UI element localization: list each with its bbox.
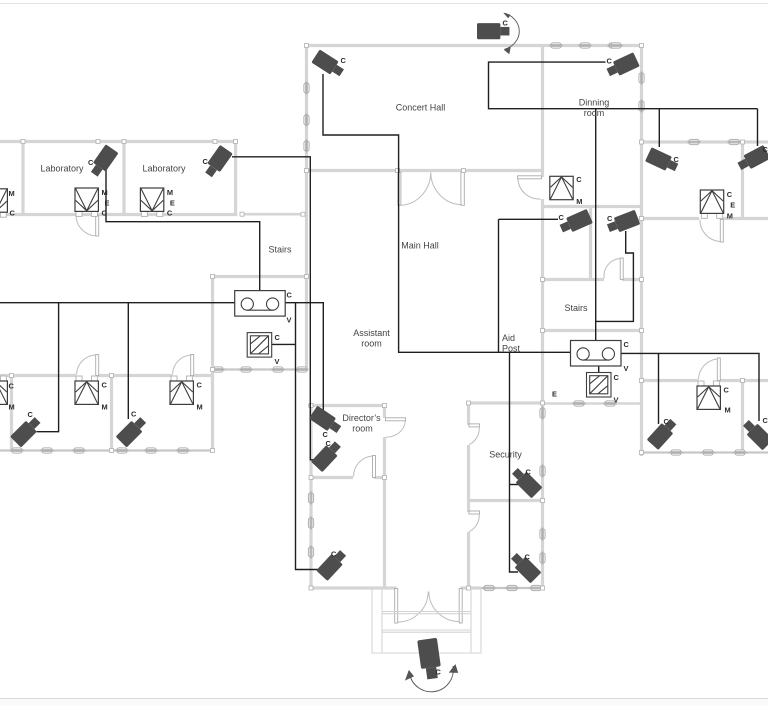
window south [506, 585, 519, 590]
svg-text:V: V [624, 364, 629, 373]
svg-text:M: M [9, 403, 15, 412]
door concert arcs [399, 172, 462, 205]
svg-text:C: C [331, 550, 337, 559]
wall security left v1 [467, 403, 470, 425]
door dinning arc [518, 179, 541, 199]
wall stairs1 bottom [211, 368, 306, 370]
detector box SW1 C/M [75, 376, 108, 412]
camera stairs-A [558, 209, 593, 236]
window SW-wing bottom [116, 448, 129, 453]
svg-text:M: M [576, 197, 582, 206]
page top rule [0, 3, 768, 5]
door director2 leaf [373, 456, 376, 478]
wall SE-wing top right part [719, 379, 768, 382]
wall NE-wing divider [741, 141, 744, 221]
wall SE-wing divider [741, 379, 744, 454]
svg-text:C: C [323, 430, 329, 439]
window main top east [579, 43, 592, 48]
window security east [540, 407, 545, 420]
window concert west [304, 140, 309, 153]
svg-text:C: C [727, 190, 733, 199]
window SW-wing bottom [41, 448, 54, 453]
svg-text:M: M [167, 188, 173, 197]
wall aid/security right vertical [541, 331, 544, 590]
detector box dinning C/M [550, 175, 583, 206]
svg-text:M: M [197, 403, 203, 412]
door stairs2 arc [604, 259, 620, 279]
wall corridor bottom [242, 213, 304, 216]
wire SE-camA drop [658, 353, 660, 424]
svg-text:Laboratory: Laboratory [40, 164, 84, 174]
svg-text:E: E [730, 200, 735, 209]
detector box west partial (labs) [0, 189, 16, 218]
svg-text:Main Hall: Main Hall [401, 241, 439, 251]
camera lab1 [88, 144, 119, 178]
page bottom rule [0, 698, 768, 700]
window main top [608, 43, 621, 48]
window concert west [304, 114, 309, 127]
door director2 arc [353, 456, 372, 477]
svg-text:Stairs: Stairs [564, 303, 588, 313]
camera dinning [605, 52, 640, 79]
window SE-wing bottom [734, 450, 747, 455]
wall SW-wing top b [98, 374, 172, 377]
door NE-wing arc [700, 220, 720, 242]
svg-text:C: C [88, 158, 94, 167]
window main top east [610, 43, 623, 48]
window security east [540, 552, 545, 565]
camera NE-B [736, 145, 768, 173]
window SE inner top [573, 401, 586, 406]
wire security cam1 stub [510, 484, 523, 486]
window director west [308, 517, 313, 530]
detector box SW partial C/M [0, 376, 15, 412]
window SW-wing bottom [177, 448, 190, 453]
svg-text:C: C [607, 57, 613, 66]
detector box SE-wing C/M [697, 381, 731, 415]
wall SE-wing bottom [640, 451, 768, 453]
svg-text:C: C [102, 209, 108, 218]
wall south entrance right [461, 586, 482, 589]
wall stairs2 top left part [541, 278, 604, 281]
wall south entrance left [310, 586, 397, 589]
window concert west [304, 82, 309, 95]
svg-text:C: C [28, 410, 34, 419]
wall south windows [481, 587, 544, 589]
door frame concert right [462, 169, 466, 173]
svg-text:C: C [9, 382, 15, 391]
wall security left v3 [467, 532, 470, 589]
svg-text:Security: Security [489, 450, 522, 460]
wall director top [308, 404, 386, 407]
window SW-wing bottom [73, 448, 86, 453]
svg-text:E: E [170, 198, 175, 207]
wall SW-wing bottom [0, 449, 213, 451]
door SW1 leaf [96, 355, 99, 376]
camera security-2 [508, 550, 541, 583]
wall NE-wing bottom right [722, 217, 768, 220]
wall director divider b [374, 476, 386, 479]
wall main top [306, 44, 644, 47]
wire recorder2 to SE-camB [621, 353, 759, 421]
camera SW-1 [10, 415, 43, 448]
wall stairs2 top right part [622, 278, 643, 281]
pan arc bottom [410, 666, 454, 692]
svg-text:C: C [341, 56, 347, 65]
porch outline [372, 588, 481, 653]
svg-text:M: M [727, 212, 733, 221]
camera SW-2 [116, 415, 149, 448]
window NE-wing top [688, 139, 701, 144]
svg-text:C: C [526, 468, 532, 477]
svg-text:C: C [624, 340, 630, 349]
wall concert/stairs left vertical [305, 44, 308, 371]
wire NE-camB drop [757, 109, 759, 146]
window SE-wing bottom [702, 450, 715, 455]
svg-text:C: C [724, 386, 730, 395]
camera SE-B [740, 417, 768, 450]
wire junction down to director-cam3 [296, 303, 319, 570]
wall concert bottom [307, 169, 545, 172]
svg-text:C: C [102, 381, 108, 390]
pan arc top [505, 13, 520, 49]
window director west [308, 546, 313, 559]
svg-text:Assistant: Assistant [353, 328, 390, 338]
window SE inner top [604, 401, 617, 406]
svg-text:Stairs: Stairs [268, 245, 292, 255]
wall director divider a [310, 476, 353, 479]
svg-text:Director’s: Director’s [342, 413, 381, 423]
wall SW-wing top a [0, 374, 76, 377]
wall lab right vertical [234, 140, 237, 216]
svg-text:C: C [167, 209, 173, 218]
camera pan-bottom [417, 638, 442, 680]
wall director right v2 [383, 437, 386, 589]
wall stairs2 bottom [541, 329, 643, 332]
window director west [308, 492, 313, 505]
svg-text:V: V [275, 357, 280, 366]
wire lab1-cam to recorder1 [106, 170, 260, 291]
window security east [540, 465, 545, 478]
door dinning leaf [518, 176, 542, 179]
wire stairs-camB loop [596, 231, 634, 321]
svg-text:C: C [607, 214, 613, 223]
svg-text:C: C [576, 175, 582, 184]
wire concert-cam to recorder2 [323, 74, 571, 352]
window SW-wing bottom [145, 448, 158, 453]
door entrance arcs [398, 592, 460, 623]
svg-text:Concert Hall: Concert Hall [396, 103, 446, 113]
door SE-wing leaf [717, 358, 720, 381]
door entrance left leaf [395, 589, 398, 624]
door NE-wing leaf [720, 220, 723, 243]
window stairs1 bottom [240, 367, 253, 372]
wall lab-wing top [0, 140, 237, 143]
window south [530, 585, 543, 590]
svg-text:M: M [102, 403, 108, 412]
wall concert/dinning divider lower [541, 199, 544, 331]
door frame concert left [396, 169, 400, 173]
wall NE-wing bottom left [640, 217, 699, 220]
detector box NE-wing C/E/M [700, 190, 735, 221]
door lab1 arc [76, 216, 97, 237]
wall NE-wing top [640, 140, 768, 143]
window dinning east [639, 72, 644, 85]
svg-text:Dinning: Dinning [579, 98, 610, 108]
camera director-3 [316, 548, 349, 581]
window SE-wing bottom [670, 450, 683, 455]
wall lab-wing bottom [0, 213, 237, 216]
wall concert/dinning divider upper [541, 44, 544, 177]
svg-text:C: C [436, 668, 442, 677]
window main top east [550, 43, 563, 48]
wall lab divider vertical [122, 140, 125, 216]
recorder VCR unit 1 [235, 291, 286, 317]
svg-text:C: C [763, 416, 768, 425]
camera security-1 [509, 465, 542, 498]
wire lab2-cam to director-cam2 [232, 157, 316, 460]
wire recorder1 to director-cam1 [285, 303, 323, 410]
wire NE-camA drop [658, 109, 660, 147]
svg-text:C: C [326, 439, 332, 448]
window dinning east [639, 100, 644, 113]
door concert right leaf [461, 172, 464, 205]
wall junction marks [21, 140, 25, 144]
wall stairs1 top [211, 275, 308, 278]
svg-text:C: C [275, 333, 281, 342]
window NE-wing top [728, 139, 741, 144]
wall security divider [467, 499, 544, 502]
wire SW-cam1 up [37, 303, 59, 432]
door lab1 leaf [96, 216, 99, 237]
svg-text:C: C [131, 410, 137, 419]
door concert left leaf [398, 172, 401, 205]
wall SE inner top [544, 402, 640, 405]
wire west trunk to recorder1 [0, 302, 235, 304]
window stairs1 bottom [212, 367, 225, 372]
camera stairs-B [606, 210, 641, 236]
door director arc [386, 421, 405, 438]
door SW2 leaf [191, 355, 194, 376]
door security2 leaf [469, 511, 480, 514]
wall security left v2 [467, 445, 470, 512]
svg-text:M: M [102, 188, 108, 197]
svg-text:C: C [503, 19, 509, 28]
wall stairs1/SW right vertical [211, 275, 214, 452]
svg-text:C: C [674, 155, 680, 164]
recorder VCR unit 2 [571, 341, 622, 367]
detector box lab2 M/E/C [140, 188, 175, 218]
svg-text:E: E [105, 198, 110, 207]
wall SW-wing divider [110, 374, 113, 452]
detector box lab1 M/E/C [75, 188, 110, 218]
svg-text:room: room [361, 339, 382, 349]
door director leaf [386, 418, 406, 421]
camera NE-A [645, 147, 680, 174]
wall stairs2 divider vertical [589, 205, 592, 281]
door SW2 arc [173, 355, 191, 375]
door security1 leaf [469, 424, 480, 427]
svg-text:C: C [197, 381, 203, 390]
camera director-1 [309, 406, 344, 436]
wall lab left vertical [21, 140, 24, 216]
camera SE-A [647, 416, 679, 450]
door security1 arc [469, 427, 479, 445]
wall aid-post bottom [467, 401, 544, 404]
svg-text:Aid: Aid [502, 333, 515, 343]
svg-text:Laboratory: Laboratory [142, 164, 186, 174]
camera pan-top [477, 23, 509, 39]
svg-text:E: E [552, 390, 557, 399]
wall director left vertical [309, 404, 312, 589]
svg-text:C: C [525, 553, 531, 562]
camera concert [311, 49, 346, 79]
window SW-wing bottom [11, 448, 24, 453]
window security east [540, 528, 545, 541]
door stairs2 leaf [620, 258, 623, 280]
svg-text:C: C [10, 208, 16, 217]
svg-text:C: C [664, 417, 670, 426]
window south [483, 585, 496, 590]
wall SW-wing left vertical [10, 374, 13, 452]
svg-text:Post: Post [502, 344, 521, 354]
wire SW-cam2 down [127, 303, 129, 419]
svg-text:room: room [352, 424, 373, 434]
svg-text:V: V [287, 316, 292, 325]
detector box SW2 C/M [170, 376, 203, 412]
door SE-wing arc [699, 359, 718, 380]
wire to monitor1 [272, 343, 296, 345]
wire security branch [510, 352, 519, 572]
svg-text:C: C [763, 145, 768, 154]
wire dinning-cam to north trunk [489, 62, 758, 109]
wall SE-wing top left part [642, 379, 698, 382]
door SW1 arc [77, 355, 96, 375]
svg-text:C: C [203, 157, 209, 166]
wire stairs-camA down [498, 219, 500, 352]
door security2 arc [469, 514, 479, 532]
svg-text:M: M [9, 189, 15, 198]
wall east long vertical [640, 44, 643, 456]
window stairs1 bottom [272, 367, 285, 372]
monitor unit 2 [587, 373, 612, 398]
wire stairs-camA lens [499, 218, 559, 220]
svg-text:C: C [614, 373, 620, 382]
wall director right v1 [383, 404, 386, 418]
svg-text:V: V [614, 396, 619, 405]
camera lab2 [202, 145, 233, 179]
monitor unit 1 [247, 333, 272, 358]
door entrance right leaf [459, 589, 462, 624]
svg-text:M: M [725, 406, 731, 415]
svg-text:C: C [287, 291, 293, 300]
camera director-2 [311, 439, 344, 472]
svg-text:room: room [584, 108, 605, 118]
window stairs1 bottom [296, 367, 309, 372]
wire trunk to recorder2 [595, 109, 597, 341]
wall SW-wing top c [193, 374, 214, 377]
wall dinning bottom [541, 205, 642, 208]
wire recorder2 to monitor2 [598, 366, 600, 373]
svg-text:C: C [559, 213, 565, 222]
